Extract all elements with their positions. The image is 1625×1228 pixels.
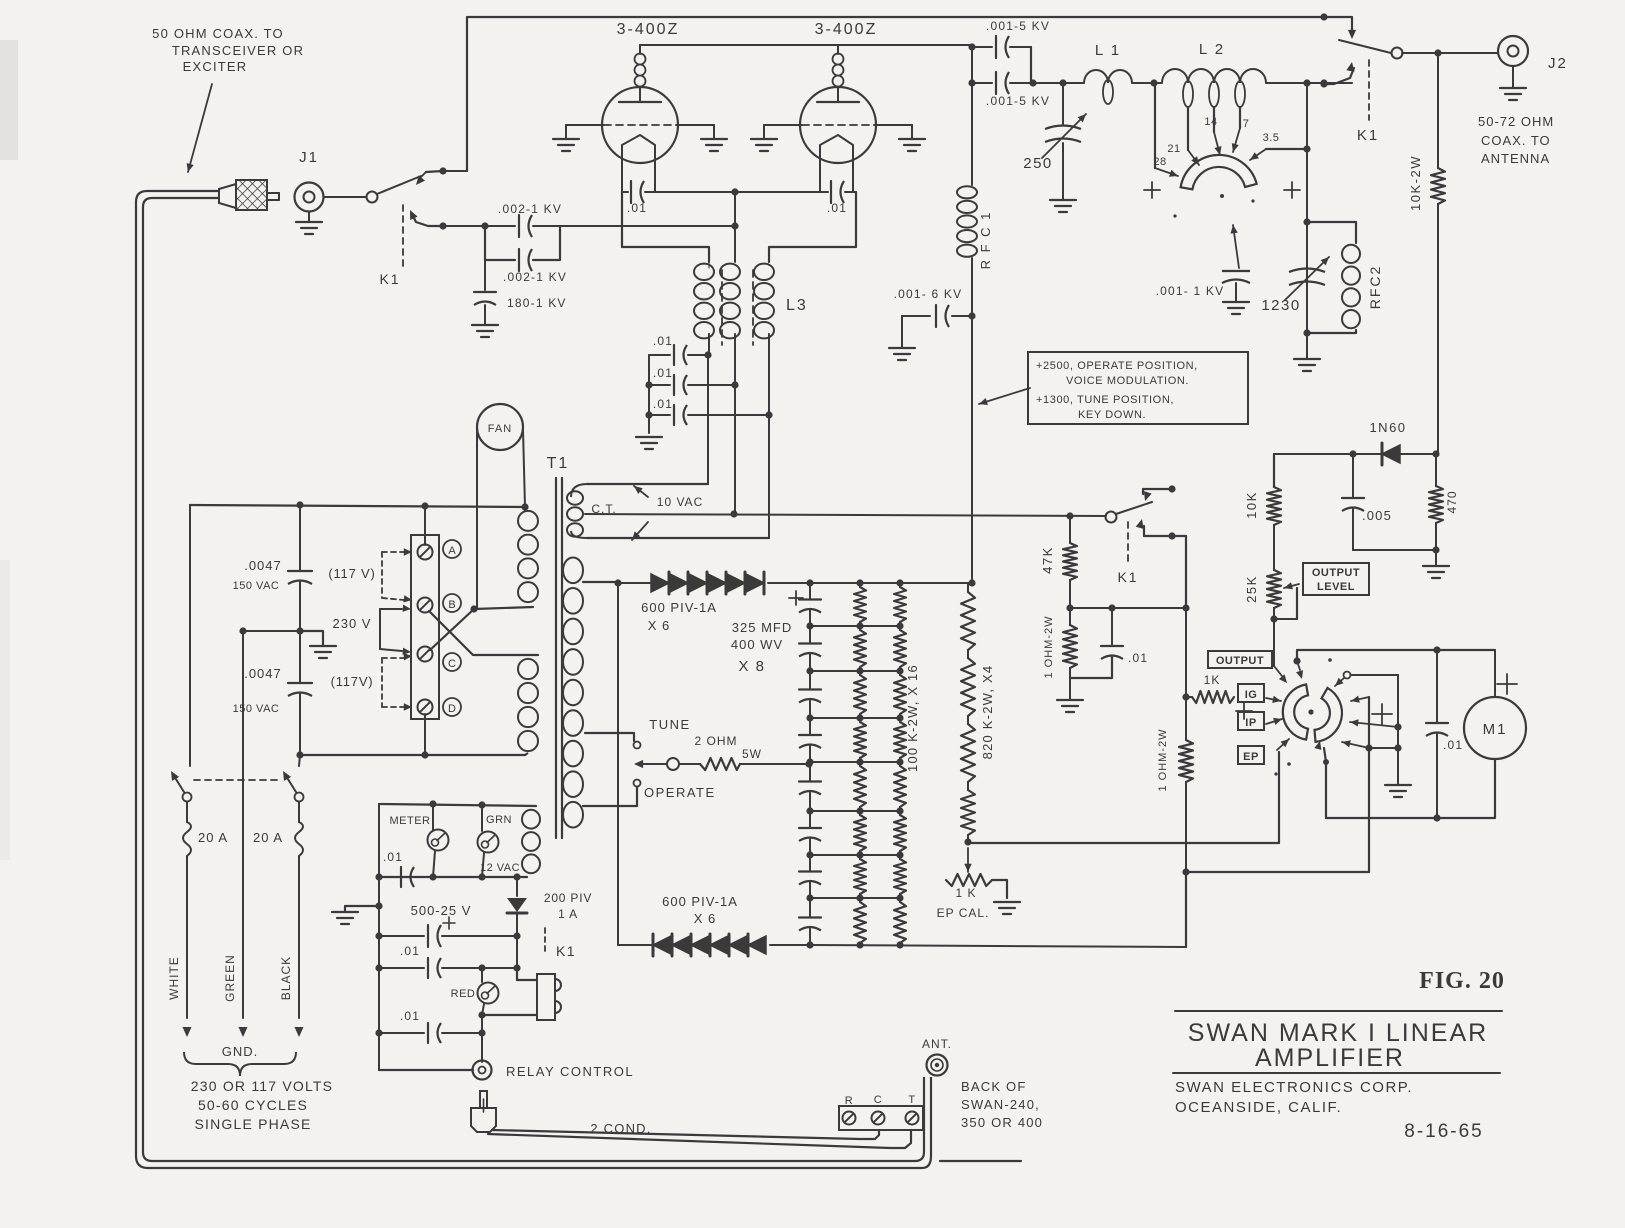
junction [1066, 604, 1189, 611]
label M1 [1483, 721, 1508, 738]
label .01 (fil 2) [653, 366, 673, 380]
arrow EP contact [1277, 739, 1289, 750]
label 150 VAC (upper) [233, 580, 280, 592]
label A [443, 540, 461, 558]
label 1K (EP CAL) [955, 886, 976, 900]
svg-text:10K: 10K [1244, 491, 1259, 519]
svg-text:OCEANSIDE, CALIF.: OCEANSIDE, CALIF. [1175, 1099, 1342, 1116]
svg-text:20 A: 20 A [198, 830, 228, 845]
junction [1433, 646, 1440, 653]
variable capacitor .001-1KV (padder) arrow [1231, 225, 1240, 268]
meter M1 [1464, 697, 1526, 759]
wire cap/res bottoms [1353, 549, 1436, 551]
inductor RFC1 [957, 186, 977, 257]
label BLACK [279, 956, 293, 1000]
wire: bypass line across top [467, 17, 1352, 171]
resistor 470 [1429, 454, 1443, 550]
svg-text:14: 14 [1204, 116, 1217, 128]
svg-text:SWAN-240,: SWAN-240, [961, 1097, 1040, 1112]
label RELAY CONTROL [506, 1064, 634, 1079]
capacitor .005 [1342, 454, 1364, 550]
junction [1432, 546, 1439, 553]
fan lead right [523, 430, 525, 507]
date 8-16-65 [1404, 1121, 1484, 1142]
svg-text:METER: METER [390, 815, 431, 827]
wire 10VAC top lead [587, 483, 708, 485]
junction [731, 188, 738, 195]
bandswitch rotor S2 [1181, 155, 1257, 189]
svg-text:ANT.: ANT. [922, 1037, 952, 1051]
wire J2 to ground [1512, 66, 1514, 88]
svg-text:8-16-65: 8-16-65 [1404, 1121, 1484, 1142]
capacitor .002-1KV (upper) [485, 215, 560, 237]
diode string 600PIV bottom [618, 934, 810, 956]
dashed relay K1 coil link [544, 928, 546, 952]
svg-text:.01: .01 [627, 201, 647, 215]
svg-text:600 PIV-1A: 600 PIV-1A [662, 894, 738, 909]
label K1 (bias relay) [1117, 569, 1138, 585]
capacitor .01 (V2 cathode) [821, 181, 855, 203]
label .01 (V2) [827, 201, 847, 215]
svg-text:RELAY CONTROL: RELAY CONTROL [506, 1064, 634, 1079]
svg-text:50-60 CYCLES: 50-60 CYCLES [198, 1097, 308, 1113]
lamp GRN [478, 805, 499, 877]
diode 1N60 [1382, 443, 1400, 465]
label 470 [1445, 490, 1459, 513]
label 325 MFD [732, 620, 792, 635]
label 47K [1040, 546, 1055, 574]
svg-text:.01: .01 [383, 850, 403, 864]
resistor 1 OHM-2W (grid meter shunt) [1063, 608, 1077, 700]
wire EP contact run [968, 752, 1279, 843]
svg-text:.0047: .0047 [244, 666, 282, 681]
T1 HV secondary winding [563, 555, 587, 828]
capacitor .01 (lamp row 3) [379, 1023, 482, 1043]
junction [429, 873, 520, 880]
terminal screw R [843, 1112, 856, 1125]
resistor 1 OHM-2W (plate meter shunt) [1179, 697, 1193, 872]
svg-text:B: B [448, 599, 455, 611]
ground at line filter [310, 646, 336, 658]
diode string 600PIV top [648, 572, 810, 594]
svg-text:20 A: 20 A [253, 830, 283, 845]
label 3-400Z (V1) [617, 21, 680, 38]
terminal strip (A-D) body [411, 535, 439, 719]
junction plate bus to HV [968, 43, 975, 50]
capacitor .0047 (lower) [288, 631, 312, 755]
svg-text:J2: J2 [1548, 55, 1568, 72]
svg-text:OUTPUT: OUTPUT [1216, 655, 1264, 667]
ground below contact bus [1385, 785, 1411, 797]
svg-text:150 VAC: 150 VAC [233, 580, 280, 592]
annotation box +2500/+1300 [1028, 352, 1248, 424]
svg-text:.002-1 KV: .002-1 KV [498, 202, 562, 216]
label R [845, 1095, 853, 1107]
wire bottom return [379, 1069, 473, 1071]
svg-text:.001-5 KV: .001-5 KV [986, 19, 1050, 33]
relay contact K1a lower contact [410, 210, 443, 226]
capacitor .01 (fil bypass 2) [649, 375, 735, 395]
svg-text:2 COND.: 2 COND. [590, 1121, 651, 1136]
capacitor .01 (fil bypass 3) [649, 405, 769, 425]
variable capacitor 250 [1042, 83, 1086, 200]
svg-text:VOICE MODULATION.: VOICE MODULATION. [1066, 375, 1189, 387]
label 20A (right) [253, 830, 283, 845]
resistor 2 OHM 5W [679, 758, 809, 770]
label RED [451, 988, 476, 1000]
svg-text:COAX. TO: COAX. TO [1481, 133, 1551, 148]
resistor bank 100K-2W x16 [854, 583, 906, 947]
connector J2 [1498, 36, 1528, 66]
note: 50 OHM COAX TO TRANSCEIVER OR EXCITER [152, 26, 304, 74]
label K1 (output relay) [1357, 127, 1379, 144]
wire bleeder row to 2ohm [809, 761, 900, 763]
variable capacitor 1230 [1285, 257, 1329, 300]
junction [704, 351, 772, 418]
wire center tap down to L3 winding2 [734, 192, 736, 262]
capacitor .01 (lamp row 2) [379, 958, 482, 978]
ground below 180-1KV [472, 325, 498, 337]
junction [964, 838, 971, 845]
wire 1N60 row [1274, 453, 1436, 455]
capacitor 500-25V electrolytic [379, 917, 517, 947]
wire contact1 to shunt [1186, 697, 1369, 872]
svg-text:J1: J1 [299, 149, 319, 166]
label L3 [786, 297, 808, 314]
label 1N60 [1369, 420, 1406, 435]
junction [375, 873, 382, 1036]
svg-text:FAN: FAN [488, 423, 512, 435]
terminal screw C [872, 1112, 885, 1125]
label 600 PIV-1A (bottom) [662, 894, 738, 909]
capacitor .001-5KV (lower) [972, 72, 1031, 94]
svg-text:WHITE: WHITE [167, 956, 181, 1000]
label L2 [1199, 41, 1225, 58]
terminal screw D [418, 700, 433, 715]
wire D to bottom row [424, 714, 426, 755]
junction [1270, 615, 1277, 622]
svg-text:470: 470 [1445, 490, 1459, 513]
svg-text:IP: IP [1245, 717, 1256, 729]
label FIG. 20 [1419, 968, 1505, 994]
svg-text:+1300, TUNE POSITION,: +1300, TUNE POSITION, [1036, 394, 1174, 406]
decorative-free rotor dots [1173, 194, 1254, 218]
junction [296, 751, 428, 758]
svg-text:EXCITER: EXCITER [183, 59, 248, 74]
inductor L2 [1162, 69, 1266, 107]
vacuum tube V1 3-400Z [553, 45, 727, 192]
dashed relay K1b link [1368, 60, 1370, 120]
wire V2 right leg to L3 winding3 [769, 192, 856, 262]
label RFC2 [1367, 265, 1383, 310]
label X 6 (top) [648, 618, 671, 633]
diode 200 PIV 1A [507, 877, 527, 936]
title rule top [1175, 1010, 1502, 1012]
fuse 20A (black) [295, 802, 303, 862]
label C (strip) [874, 1094, 882, 1106]
svg-text:820 K-2W, X4: 820 K-2W, X4 [980, 665, 995, 760]
label L1 [1095, 42, 1121, 59]
wire cap branch [1030, 47, 1032, 83]
label .01 (bias) [1128, 651, 1148, 665]
junction [1349, 450, 1439, 457]
svg-text:R F C 1: R F C 1 [978, 211, 993, 270]
label ANT. [922, 1037, 952, 1051]
label 200 PIV / 1A [544, 891, 592, 921]
svg-text:2 OHM: 2 OHM [694, 734, 737, 748]
junction [1320, 80, 1327, 87]
relay contact K1c lower contact [1136, 519, 1168, 536]
capacitor .0047 (upper) [288, 505, 312, 631]
junction [1303, 329, 1310, 336]
dashed relay K1c link [1127, 522, 1129, 566]
wire 12VAC return [379, 876, 527, 878]
label C.T. [591, 502, 616, 516]
label K1 (input relay) [379, 271, 400, 287]
capacitor .01 (V1 cathode) [622, 181, 655, 203]
label .0047 (upper) [244, 558, 282, 573]
wire cap to ground [484, 305, 486, 325]
svg-text:230 OR 117 VOLTS: 230 OR 117 VOLTS [191, 1078, 333, 1094]
wire to ground [1435, 550, 1437, 566]
svg-text:325 MFD: 325 MFD [732, 620, 792, 635]
junction [645, 381, 652, 418]
wire output level down to switch [1273, 619, 1275, 666]
core dashes of L3 [722, 270, 753, 345]
junction [1168, 532, 1175, 539]
svg-text:+2500, OPERATE POSITION,: +2500, OPERATE POSITION, [1036, 360, 1198, 372]
wire to ground [1306, 333, 1308, 359]
terminal RELAY CONTROL [473, 1061, 492, 1080]
terminal strip R C T [839, 1106, 923, 1130]
wire plate line to L1 [1031, 82, 1084, 84]
wire BLACK lead [295, 862, 304, 1037]
wire ground stub [300, 631, 323, 646]
label (117 V) upper [328, 566, 375, 581]
label 10 VAC [657, 495, 703, 509]
wire L3-3 down to fil return [768, 415, 770, 538]
junction [513, 932, 520, 939]
svg-text:ANTENNA: ANTENNA [1481, 151, 1550, 166]
label .001-5KV lower [986, 94, 1050, 108]
wire fil bypass bus [648, 355, 650, 433]
note 50-72 OHM COAX TO ANTENNA [1478, 114, 1554, 166]
ground below 1 ohm [1057, 700, 1083, 712]
capacitor bank 325MFD x8 [789, 583, 821, 947]
meter M1 top wire [1297, 650, 1495, 661]
wire HV feed down [971, 45, 973, 185]
junction [1434, 49, 1441, 56]
wire 10VAC CT lead [584, 513, 586, 515]
junction [1303, 79, 1327, 86]
junction [968, 312, 975, 319]
label C [443, 653, 461, 671]
wire diode feed [618, 582, 648, 584]
plus mark (EP polarity) [1372, 704, 1392, 724]
label GRN [486, 814, 512, 826]
label K1 (relay coil) [556, 943, 576, 959]
wire cap to ground [901, 316, 903, 348]
wire RFC1 to B+ rail [971, 258, 973, 583]
wire lamp left bus [378, 804, 380, 1070]
label 600 PIV-1A (top) [641, 600, 717, 615]
svg-text:3-400Z: 3-400Z [815, 21, 878, 38]
label TUNE [649, 717, 690, 732]
svg-text:GRN: GRN [486, 814, 512, 826]
inductor L3 winding 2 [720, 264, 740, 385]
label (117V) lower [331, 674, 374, 689]
junction [1394, 723, 1401, 730]
svg-text:BLACK: BLACK [279, 956, 293, 1000]
capacitor .001-6KV [902, 305, 972, 327]
junction [1365, 744, 1401, 751]
resistor 47K [1063, 516, 1077, 608]
svg-text:.001- 6 KV: .001- 6 KV [894, 287, 963, 301]
bank tie rows [806, 622, 903, 901]
svg-text:C: C [448, 658, 456, 670]
wire WHITE lead [183, 862, 192, 1037]
label J2 [1548, 55, 1568, 72]
junction [1168, 485, 1175, 492]
relay contact K1b common [1392, 48, 1403, 59]
svg-text:OUTPUT: OUTPUT [1312, 567, 1360, 579]
label 230 V [333, 616, 372, 631]
label .01 (lamp 3) [400, 1009, 420, 1023]
terminal screw A [418, 545, 433, 560]
potentiometer 1K EP CAL [946, 874, 1007, 898]
relay contact K1a upper contact [416, 171, 443, 185]
label X 8 [738, 658, 765, 675]
switch S3b (line) [283, 755, 304, 802]
terminal screw C [418, 647, 433, 662]
svg-text:T: T [908, 1094, 915, 1106]
svg-text:12 VAC: 12 VAC [480, 862, 520, 874]
junction [1182, 693, 1189, 700]
svg-text:230 V: 230 V [333, 616, 372, 631]
dashed 117V strap lower [382, 653, 412, 711]
terminal screw T [906, 1112, 919, 1125]
tap 3.5 lead [1250, 149, 1307, 160]
wire bias bottom row [1070, 607, 1186, 609]
rotor shaft cross marks [1144, 182, 1300, 198]
wire: coax double-line from plug down left side and along bottom to ANT terminal [136, 191, 1021, 1168]
arrow OUTPUT contact [1274, 666, 1287, 683]
svg-text:.01: .01 [1443, 738, 1463, 752]
wire AC bottom row [300, 754, 525, 756]
junction [296, 627, 303, 634]
svg-text:.01: .01 [653, 397, 673, 411]
svg-text:.0047: .0047 [244, 558, 282, 573]
svg-text:.01: .01 [653, 366, 673, 380]
label 28 [1153, 156, 1166, 168]
junction [1293, 657, 1300, 664]
label 1230 [1261, 297, 1300, 314]
svg-text:.01: .01 [400, 944, 420, 958]
wire meter string [1185, 608, 1187, 697]
wire tank node down [1306, 83, 1308, 333]
wire contact bus down to ground [1397, 675, 1399, 785]
wire string tie-down [617, 583, 619, 945]
title SWAN MARK I LINEAR [1188, 1019, 1488, 1047]
label 1K [1204, 673, 1221, 687]
wire to top bypass line [443, 170, 467, 172]
svg-text:200 PIV: 200 PIV [544, 891, 592, 905]
arrow meter-switch top contact [1296, 661, 1303, 679]
wire pot bottom [1274, 608, 1297, 619]
junction [731, 222, 738, 229]
title AMPLIFIER [1255, 1044, 1405, 1072]
wire GREEN lead [239, 627, 301, 1037]
bank bottom row [806, 941, 1186, 948]
cross wire B to lower primary [429, 611, 538, 655]
note 230 OR 117 VOLTS [191, 1078, 333, 1094]
junction [1029, 79, 1066, 86]
T1 12VAC winding [522, 806, 540, 873]
label RFC1 [978, 211, 993, 270]
arrow 10VAC lower [632, 522, 648, 540]
label 5W [742, 747, 762, 761]
switch S3a (line) [171, 505, 192, 802]
wire grid line from K1a to tubes [443, 225, 485, 227]
contact wiper circle [667, 758, 679, 770]
plus mark (meter polarity) [1236, 703, 1252, 719]
relay contact K1c common [1106, 512, 1117, 523]
svg-text:K1: K1 [1117, 569, 1138, 585]
label 500-25V [411, 903, 472, 918]
svg-text:OPERATE: OPERATE [644, 785, 716, 800]
svg-text:M1: M1 [1483, 721, 1508, 738]
capacitor .002-1KV (lower) [519, 249, 532, 271]
junction [481, 222, 488, 229]
svg-text:L 2: L 2 [1199, 41, 1225, 58]
label 12 VAC [480, 862, 520, 874]
wire between 10K and 25K [1273, 525, 1275, 570]
wire plate bus [640, 44, 972, 46]
label METER [390, 815, 431, 827]
svg-text:100 K-2W, X 16: 100 K-2W, X 16 [905, 664, 920, 772]
power plug P2 [471, 1091, 496, 1132]
label 100K-2W X16 [905, 664, 920, 772]
junction [968, 79, 975, 86]
relay contact K1b (output) arm [1339, 40, 1391, 53]
ground at lamp circuit [332, 912, 358, 924]
dashed 117V strap upper [382, 548, 412, 602]
connector ANT [927, 1055, 948, 1076]
svg-text:A: A [448, 545, 456, 557]
svg-text:R: R [845, 1095, 853, 1107]
bank top row [806, 579, 975, 586]
svg-text:350 OR 400: 350 OR 400 [961, 1115, 1043, 1130]
svg-text:D: D [448, 703, 456, 715]
wire J1 to switch [324, 196, 367, 198]
resistor 820K-2W x4 chain [961, 583, 975, 842]
wire J1 stem to ground [308, 212, 310, 222]
label 10K-2W [1408, 155, 1423, 211]
cross wire C to upper primary [430, 607, 533, 650]
wire AC top row [190, 505, 525, 507]
svg-text:21: 21 [1167, 143, 1180, 155]
label .001-1KV [1156, 284, 1225, 298]
wire red lamp to terminal [478, 1015, 485, 1062]
brace under cord [184, 1052, 296, 1076]
wire L1 to L2 [1132, 82, 1162, 84]
T1 primary upper winding [518, 507, 538, 602]
label 14 [1204, 116, 1217, 128]
tap 21 lead [1188, 107, 1199, 165]
connector J1 [295, 183, 324, 212]
label .01 (fil 3) [653, 397, 673, 411]
leader arrow to coax [187, 84, 212, 172]
